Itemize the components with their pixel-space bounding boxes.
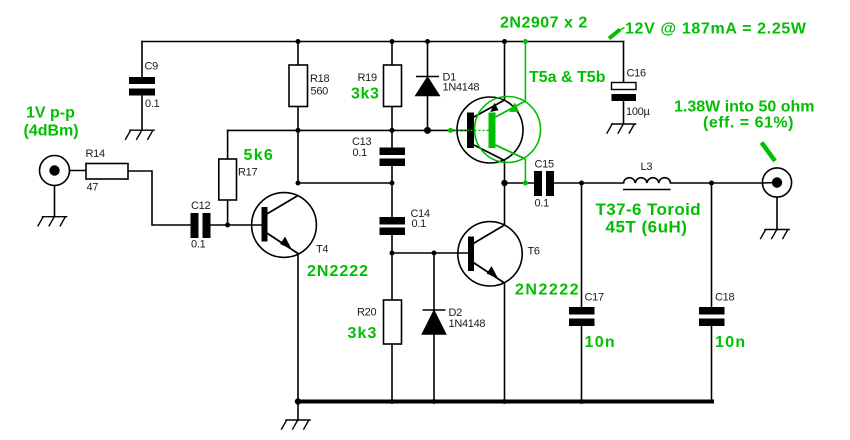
svg-text:100µ: 100µ	[626, 106, 650, 118]
svg-text:(eff. = 61%): (eff. = 61%)	[703, 115, 794, 132]
svg-text:C15: C15	[535, 159, 554, 171]
svg-text:12V @ 187mA = 2.25W: 12V @ 187mA = 2.25W	[625, 21, 807, 38]
svg-text:T4: T4	[316, 244, 328, 256]
svg-text:1N4148: 1N4148	[443, 82, 480, 94]
svg-text:R18: R18	[310, 73, 329, 85]
svg-text:C16: C16	[627, 68, 646, 80]
svg-text:0.1: 0.1	[145, 98, 160, 110]
svg-text:5k6: 5k6	[244, 147, 275, 164]
svg-text:1V p-p: 1V p-p	[26, 105, 75, 122]
svg-text:1N4148: 1N4148	[449, 318, 486, 330]
svg-text:(4dBm): (4dBm)	[24, 123, 79, 140]
svg-text:0.1: 0.1	[353, 147, 368, 159]
svg-text:47: 47	[87, 182, 99, 194]
svg-text:1.38W into 50 ohm: 1.38W into 50 ohm	[674, 99, 814, 116]
svg-text:T5a & T5b: T5a & T5b	[529, 69, 606, 86]
svg-text:10n: 10n	[715, 334, 746, 351]
svg-text:0.1: 0.1	[191, 239, 206, 251]
svg-text:C9: C9	[145, 60, 159, 72]
svg-text:2N2222: 2N2222	[307, 263, 369, 280]
svg-text:2N2907 x 2: 2N2907 x 2	[500, 15, 588, 32]
svg-text:R17: R17	[238, 167, 257, 179]
svg-text:0.1: 0.1	[535, 198, 550, 210]
svg-text:T37-6 Toroid: T37-6 Toroid	[596, 200, 702, 219]
svg-text:10n: 10n	[585, 334, 616, 351]
svg-text:45T (6uH): 45T (6uH)	[606, 218, 688, 237]
svg-text:3k3: 3k3	[348, 325, 378, 342]
svg-text:3k3: 3k3	[351, 86, 380, 103]
svg-text:C17: C17	[585, 292, 604, 304]
svg-text:C12: C12	[191, 200, 210, 212]
svg-text:R14: R14	[86, 148, 105, 160]
svg-text:560: 560	[311, 86, 329, 98]
svg-text:R20: R20	[357, 307, 376, 319]
svg-text:0.1: 0.1	[412, 218, 427, 230]
svg-text:L3: L3	[641, 161, 653, 173]
svg-text:C18: C18	[715, 292, 734, 304]
svg-text:2N2222: 2N2222	[515, 282, 580, 299]
svg-text:R19: R19	[358, 72, 377, 84]
svg-text:T6: T6	[528, 246, 540, 258]
